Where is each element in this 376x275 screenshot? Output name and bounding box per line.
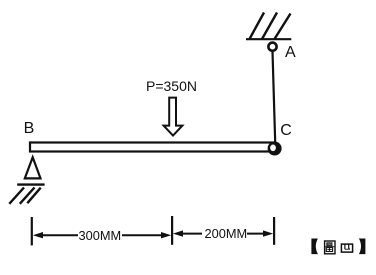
arrowhead left of 300MM xyxy=(33,232,43,238)
ceiling hatch 1 xyxy=(250,13,265,40)
ground hatch 2 xyxy=(20,188,35,204)
dimension line 200MM right part xyxy=(247,233,265,235)
svg-text:P=350N: P=350N xyxy=(146,78,197,94)
figure caption bracket left 【 xyxy=(311,239,318,255)
ceiling support line at A xyxy=(246,38,291,40)
dimension line 300MM left part xyxy=(41,234,78,236)
link member A-C xyxy=(273,52,276,143)
figure caption character 四 xyxy=(341,244,352,252)
ground hatch 3 xyxy=(27,188,40,204)
figure caption bracket right 】 xyxy=(359,239,366,255)
svg-text:A: A xyxy=(285,44,296,61)
ceiling hatch 3 xyxy=(275,14,291,40)
ground hatch 1 xyxy=(9,188,24,204)
arrowhead right of 200MM xyxy=(263,230,273,236)
dimension tick at B xyxy=(31,217,33,245)
force block arrow xyxy=(164,98,183,136)
pin C circle xyxy=(268,142,282,156)
dimension tick at C xyxy=(273,217,275,245)
dimension line 300MM right part xyxy=(122,234,163,236)
arrowhead left of 200MM xyxy=(173,230,183,236)
ceiling hatch 2 xyxy=(262,13,277,40)
svg-text:C: C xyxy=(280,122,292,139)
dimension line 200MM left part xyxy=(181,233,202,235)
beam B-C rectangle xyxy=(30,143,274,152)
arrowhead right of 300MM xyxy=(161,232,171,238)
svg-text:B: B xyxy=(24,120,35,137)
svg-text:300MM: 300MM xyxy=(79,228,122,243)
ground line at B xyxy=(17,183,44,185)
figure caption character 圖 xyxy=(325,241,335,254)
pin A circle xyxy=(268,43,276,51)
svg-text:200MM: 200MM xyxy=(205,226,248,241)
dimension tick at load point xyxy=(171,216,173,245)
pin support triangle at B xyxy=(25,157,41,178)
